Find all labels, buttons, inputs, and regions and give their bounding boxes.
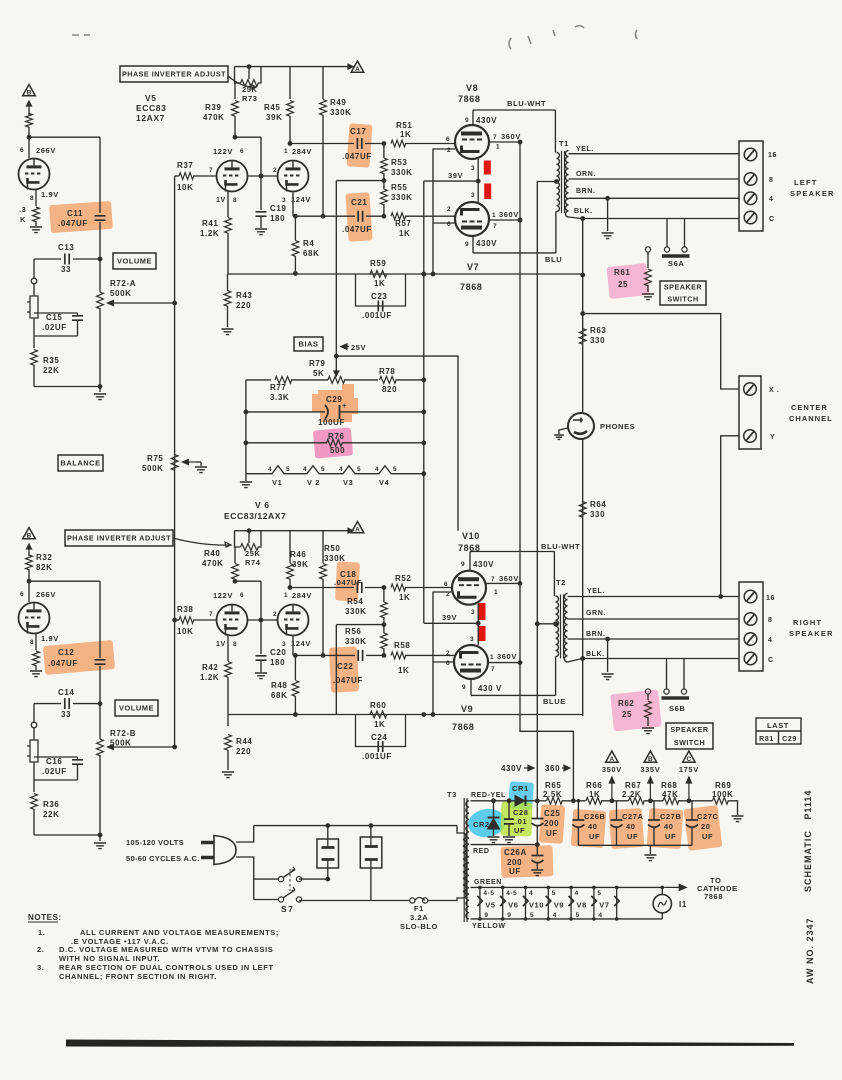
screw terminal 4 left: [744, 192, 757, 205]
svg-text:6: 6: [20, 591, 24, 598]
ground C28: [503, 837, 515, 843]
junction: [478, 886, 482, 890]
wire V8 pin2 return: [433, 149, 455, 274]
svg-text:BLUE: BLUE: [543, 697, 566, 706]
svg-text:X .: X .: [769, 387, 779, 394]
svg-text:8: 8: [233, 197, 237, 204]
svg-text:BALANCE: BALANCE: [60, 459, 100, 468]
red mark V9 pin3 lower: [478, 626, 486, 641]
wire: [508, 824, 510, 836]
junction: [382, 585, 387, 590]
svg-text:CR2: CR2: [473, 820, 490, 829]
svg-text:4: 4: [339, 466, 343, 473]
wire: [647, 694, 649, 700]
input jack circle lower: [31, 722, 37, 728]
interlock capacitor 1: [317, 839, 339, 868]
wire: [227, 750, 229, 770]
wire: [260, 176, 262, 210]
arrow -25V: [341, 344, 349, 350]
wire: [536, 826, 538, 845]
junction: [325, 877, 330, 882]
svg-text:6: 6: [446, 660, 450, 667]
potentiometer R72-A: [97, 292, 104, 309]
svg-text:RED: RED: [473, 848, 490, 855]
svg-text:3: 3: [282, 197, 286, 204]
junction: [293, 653, 298, 658]
svg-text:PHONES: PHONES: [600, 422, 635, 431]
wire C23 loop: [356, 274, 406, 306]
svg-text:1.: 1.: [38, 928, 45, 937]
wire: [649, 845, 651, 854]
svg-text:VOLUME: VOLUME: [119, 704, 154, 713]
svg-text:C28: C28: [513, 808, 529, 817]
wire: [99, 259, 101, 292]
screw terminal 8 left: [744, 173, 757, 186]
svg-text:R72-A: R72-A: [110, 279, 136, 288]
svg-text:7: 7: [491, 666, 495, 673]
capacitor C12 .047UF: [95, 660, 106, 664]
ground C26A: [531, 870, 543, 876]
svg-text:25V: 25V: [351, 343, 366, 352]
svg-text:39K: 39K: [292, 560, 308, 569]
wire: [99, 835, 101, 841]
svg-text:3.2A: 3.2A: [410, 913, 428, 922]
svg-text:UF: UF: [546, 829, 558, 838]
svg-text:R54: R54: [347, 597, 363, 606]
power tube V7 7868: [455, 202, 489, 236]
resistor R57 1K: [391, 213, 406, 220]
svg-text:2: 2: [273, 167, 277, 174]
svg-text:K: K: [20, 215, 26, 224]
resistor R45 39K: [287, 101, 294, 117]
jack body lower: [27, 740, 38, 762]
wire: [322, 579, 324, 655]
svg-text:360V: 360V: [501, 132, 521, 141]
junction: [718, 594, 723, 599]
wire: [234, 547, 236, 563]
svg-text:2.2K: 2.2K: [622, 790, 641, 799]
wire: [227, 274, 229, 291]
wire: [248, 531, 250, 543]
highlight C25: [539, 804, 566, 844]
wire: [365, 143, 384, 145]
wire: [292, 636, 294, 655]
svg-text:LEFT: LEFT: [794, 178, 818, 187]
svg-text:330K: 330K: [330, 108, 352, 117]
svg-text:430V: 430V: [476, 239, 497, 248]
svg-text:UF: UF: [627, 832, 638, 841]
wire: [175, 619, 179, 621]
wire: [457, 826, 463, 833]
wire V8 screen: [489, 141, 520, 143]
junction: [580, 273, 585, 278]
svg-text:V5: V5: [145, 93, 157, 103]
highlight C26B: [571, 809, 607, 848]
ground R75 wiper: [195, 467, 207, 473]
svg-text:R55: R55: [391, 183, 407, 192]
svg-text:16: 16: [766, 595, 775, 602]
resistor R32 82K: [26, 555, 33, 570]
ground heater rail: [240, 482, 252, 488]
wire to C22: [295, 654, 355, 656]
resistor R67 2.2K: [629, 797, 645, 804]
svg-text:.047UF: .047UF: [333, 676, 363, 685]
wire to R79 wiper: [335, 356, 337, 372]
wire: [227, 715, 229, 727]
wire: [99, 755, 101, 835]
triode V5a (input, left ch): [19, 159, 50, 190]
ground C19: [255, 229, 267, 235]
junction: [421, 440, 426, 445]
wire S6A pin1: [666, 219, 668, 248]
svg-text:10K: 10K: [177, 183, 193, 192]
svg-text:SLO-BLO: SLO-BLO: [400, 922, 438, 931]
phones jack: [568, 413, 594, 439]
wire: [577, 801, 579, 820]
wire BLU: [473, 252, 556, 254]
svg-text:330K: 330K: [391, 193, 413, 202]
wire plate node to C11: [29, 136, 100, 138]
wire: [99, 308, 101, 387]
highlight patches: [43, 123, 723, 878]
wire B+ top rail lower: [235, 530, 350, 532]
svg-text:YEL.: YEL.: [587, 588, 605, 595]
resistor R78 820: [380, 377, 397, 384]
svg-text:.047UF: .047UF: [342, 152, 372, 161]
svg-text:BLU: BLU: [545, 255, 562, 264]
capacitor C25 200UF: [532, 819, 544, 826]
screw terminal 16 left: [744, 148, 757, 161]
wire: [508, 801, 510, 819]
resistor R76 500: [327, 439, 343, 446]
junction: [288, 585, 293, 590]
svg-text:I1: I1: [679, 900, 687, 909]
wire: [35, 221, 37, 226]
svg-text:SPEAKER: SPEAKER: [790, 189, 835, 198]
junction: [580, 656, 585, 661]
wire: [294, 256, 296, 274]
wire arrow to B lower: [27, 544, 32, 552]
ground R69: [732, 816, 744, 822]
wire: [77, 757, 79, 759]
svg-text:B: B: [648, 756, 653, 763]
heater V9: [546, 896, 574, 906]
resistor R51 1K: [391, 140, 406, 147]
junction: [535, 798, 540, 803]
label box VOLUME lower: [115, 700, 158, 716]
wire cathode bus upper: [228, 273, 583, 275]
wire: [33, 318, 35, 348]
wire: [34, 703, 61, 705]
terminal marker A lower: [351, 522, 364, 534]
svg-text:1.9V: 1.9V: [41, 190, 59, 199]
pilot lamp I1: [653, 895, 671, 913]
svg-text:V8: V8: [466, 83, 478, 93]
wire: [292, 192, 294, 216]
wire: [28, 552, 30, 556]
capacitor C22 .047UF: [358, 650, 362, 661]
highlight C29: [312, 384, 358, 422]
wire: [99, 666, 101, 704]
svg-text:C26B: C26B: [584, 812, 606, 821]
wire: [99, 222, 101, 259]
svg-text:266V: 266V: [36, 146, 56, 155]
svg-text:330K: 330K: [345, 637, 367, 646]
svg-text:V9: V9: [461, 704, 473, 714]
svg-text:430V: 430V: [476, 116, 497, 125]
triode V5 section 1: [217, 161, 248, 192]
terminal marker A upper: [351, 61, 364, 73]
wire: [728, 801, 738, 815]
wire -25V feed: [336, 356, 458, 531]
junction: [580, 311, 585, 316]
wire: [383, 625, 385, 633]
junction: [244, 440, 249, 445]
svg-text:6: 6: [447, 221, 451, 228]
svg-text:9: 9: [465, 117, 469, 124]
transformer T2 core: [561, 595, 564, 659]
wire 39V upper: [424, 180, 478, 182]
label box PHASE INVERTER ADJUST upper: [120, 66, 228, 82]
svg-text:V7: V7: [467, 262, 479, 272]
junction T2 center tap: [553, 621, 558, 626]
wire: [234, 83, 236, 99]
capacitor C13 33: [65, 254, 69, 265]
svg-text:1: 1: [284, 592, 288, 599]
resistor R38 10K: [179, 617, 194, 624]
junction: [382, 653, 387, 658]
resistor R61 25: [645, 269, 652, 286]
wire: [34, 258, 61, 260]
red mark V7 pin3 upper: [484, 184, 491, 200]
svg-text:BIAS: BIAS: [299, 340, 319, 349]
capacitor C19 180: [256, 212, 267, 216]
junction: [247, 64, 252, 69]
center channel terminal strip: [739, 376, 761, 449]
svg-text:350V: 350V: [602, 765, 622, 774]
wire feedback stub: [336, 180, 384, 182]
svg-text:124V: 124V: [291, 639, 311, 648]
svg-text:V10: V10: [462, 531, 480, 541]
wire V9 plate: [470, 679, 472, 695]
svg-text:4: 4: [768, 637, 773, 644]
svg-text:4-5: 4-5: [483, 890, 494, 897]
svg-text:9: 9: [465, 241, 469, 248]
wire: [260, 137, 262, 176]
scan artifact bottom edge line: [66, 1040, 794, 1047]
wire: [383, 173, 385, 181]
svg-text:7868: 7868: [704, 892, 723, 901]
wire: [383, 617, 385, 625]
svg-text:BRN.: BRN.: [586, 631, 606, 638]
resistor R42 1.2K: [225, 662, 232, 678]
capacitor C11 .047UF: [95, 216, 106, 220]
wire: [383, 181, 385, 189]
wire: [607, 198, 609, 231]
svg-text:1K: 1K: [374, 720, 385, 729]
svg-text:C26A: C26A: [504, 848, 527, 857]
svg-text:360V: 360V: [497, 652, 517, 661]
svg-text:C20: C20: [270, 648, 286, 657]
svg-text:16: 16: [768, 152, 777, 159]
wire rectifier rail: [471, 800, 538, 802]
wire C24 loop: [356, 715, 406, 747]
resistor R33 upper: [26, 114, 33, 128]
wire: [289, 67, 291, 99]
junction: [421, 272, 426, 277]
svg-text:B: B: [27, 90, 32, 97]
svg-text:.01: .01: [515, 817, 527, 826]
wire plate lead: [28, 137, 30, 158]
svg-text:33: 33: [61, 710, 71, 719]
svg-text:1K: 1K: [374, 279, 385, 288]
svg-text:CHANNEL; FRONT SECTION IN RIGH: CHANNEL; FRONT SECTION IN RIGHT.: [59, 972, 217, 981]
svg-text:BLK.: BLK.: [586, 651, 605, 658]
wire: [77, 313, 79, 315]
wire: [678, 800, 713, 802]
svg-text:UF: UF: [509, 867, 521, 876]
wire: [322, 531, 324, 563]
svg-text:BLK.: BLK.: [574, 208, 593, 215]
arrow to cathode: [664, 884, 686, 890]
wire plate to C18: [290, 587, 354, 589]
junction: [27, 135, 32, 140]
wire: [340, 411, 424, 413]
svg-text:220: 220: [236, 301, 251, 310]
svg-text:SWITCH: SWITCH: [667, 295, 698, 304]
wire: [34, 312, 78, 314]
svg-text:4: 4: [769, 196, 774, 203]
svg-text:39K: 39K: [266, 113, 282, 122]
svg-text:3.3K: 3.3K: [270, 393, 289, 402]
svg-text:68K: 68K: [271, 691, 287, 700]
wire: [383, 144, 385, 159]
wire V7 pin3: [477, 181, 479, 202]
heater V8: [569, 896, 597, 906]
leader curve to R74 wiper: [173, 538, 231, 547]
svg-text:UF: UF: [589, 832, 600, 841]
junction: [98, 833, 103, 838]
wire: [34, 779, 78, 781]
heater V6: [500, 896, 528, 906]
wire V9 pin3: [477, 623, 479, 645]
wire: [33, 284, 35, 296]
wire V9 pin6 return: [433, 661, 454, 663]
svg-text:R59: R59: [370, 259, 386, 268]
svg-text:R40: R40: [204, 549, 220, 558]
svg-text:BLU-WHT: BLU-WHT: [541, 542, 580, 551]
svg-text:A: A: [610, 756, 615, 763]
shorting plug S6B: [662, 689, 690, 698]
svg-text:3: 3: [471, 165, 475, 172]
wire: [616, 801, 618, 820]
svg-text:1: 1: [496, 144, 500, 151]
svg-text:T1: T1: [559, 139, 569, 148]
junction: [98, 257, 103, 262]
wire: [34, 386, 100, 388]
wire heater rail V1-V4: [246, 466, 424, 474]
svg-text:R46: R46: [290, 550, 306, 559]
junction: [325, 823, 330, 828]
resistor R36 22K: [31, 794, 38, 810]
svg-text:500K: 500K: [110, 739, 132, 748]
resistor R39 470K: [232, 101, 239, 117]
resistor R44 220: [225, 735, 232, 751]
svg-text:R56: R56: [345, 627, 361, 636]
junction: [518, 140, 523, 145]
wiper arrow R72-A: [113, 302, 175, 304]
wiper arrow R75: [185, 461, 196, 463]
svg-text:B: B: [27, 533, 32, 540]
wire: [227, 233, 229, 274]
svg-text:1K: 1K: [399, 229, 410, 238]
junction: [293, 214, 298, 219]
svg-text:REAR SECTION OF DUAL CONTROLS: REAR SECTION OF DUAL CONTROLS USED IN LE…: [59, 963, 274, 972]
svg-text:BRN.: BRN.: [576, 188, 596, 195]
wire riser 175V: [686, 777, 691, 801]
wire: [661, 887, 663, 894]
svg-text:100K: 100K: [712, 790, 734, 799]
wire heater cell rail: [593, 887, 595, 919]
shorting plug S6A: [662, 247, 690, 256]
resistor R40 470K: [232, 564, 239, 580]
svg-text:R69: R69: [715, 781, 731, 790]
svg-text:3.: 3.: [37, 963, 44, 972]
svg-text:1.2K: 1.2K: [200, 229, 219, 238]
highlight C28: [500, 801, 532, 836]
svg-text:430 V: 430 V: [478, 684, 502, 693]
svg-text:10K: 10K: [177, 627, 193, 636]
jack body upper: [27, 296, 38, 318]
wire center channel Y: [721, 436, 739, 597]
junction: [27, 579, 32, 584]
svg-text:A: A: [355, 66, 360, 73]
svg-text:D.C. VOLTAGE MEASURED WITH VTV: D.C. VOLTAGE MEASURED WITH VTVM TO CHASS…: [59, 945, 273, 954]
junction: [98, 384, 103, 389]
svg-text:.001UF: .001UF: [362, 752, 392, 761]
capacitor C21 .047UF: [358, 211, 362, 222]
svg-text:360V: 360V: [499, 210, 519, 219]
resistor R68 47K: [663, 797, 679, 804]
svg-text:122V: 122V: [213, 147, 233, 156]
svg-text:SPEAKER: SPEAKER: [789, 629, 834, 638]
junction: [648, 798, 653, 803]
wire: [396, 379, 424, 381]
transformer T3 core: [464, 798, 467, 922]
junction: [524, 917, 528, 921]
svg-text:5: 5: [597, 890, 601, 897]
svg-text:3: 3: [471, 609, 475, 616]
resistor R62 25: [645, 701, 652, 718]
arrow 430V: [524, 765, 534, 771]
svg-text:V 6: V 6: [255, 500, 270, 510]
wire V7 pin6 return: [433, 222, 455, 224]
svg-text:R48: R48: [271, 681, 287, 690]
junction: [501, 917, 505, 921]
svg-text:5: 5: [393, 466, 397, 473]
wire RED rail: [471, 844, 538, 846]
scan artifact top marks: [72, 26, 637, 49]
junction: [431, 272, 436, 277]
svg-text:2: 2: [446, 650, 450, 657]
junction: [382, 141, 387, 146]
label box BALANCE: [58, 455, 103, 471]
wire: [260, 620, 262, 654]
heater V5: [477, 896, 505, 906]
triode V6 section 2: [278, 605, 309, 636]
svg-text:CENTER: CENTER: [791, 403, 828, 412]
wire S6B pin1: [666, 659, 668, 690]
